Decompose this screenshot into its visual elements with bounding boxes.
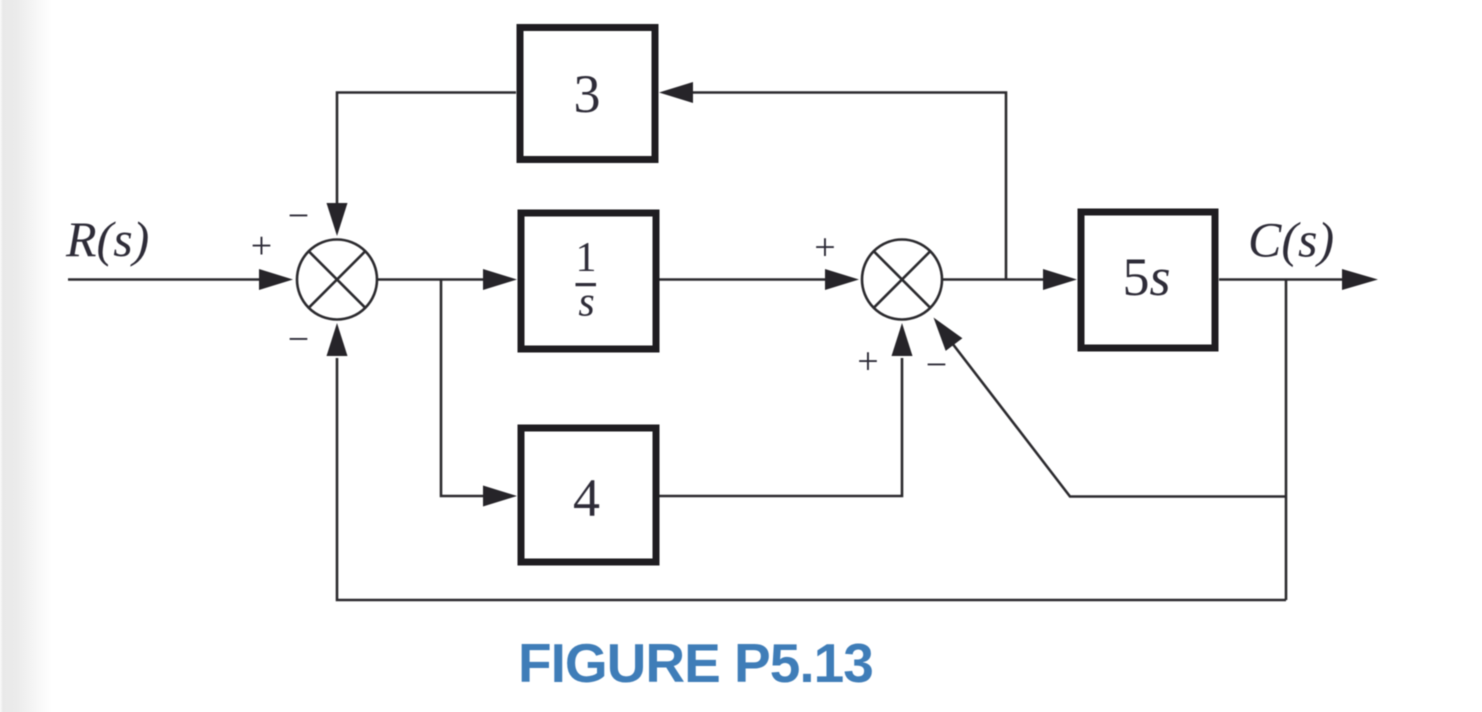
- svg-text:−: −: [288, 319, 309, 361]
- arrowhead into 5s: [1043, 269, 1077, 290]
- svg-text:3: 3: [574, 64, 601, 124]
- arrowhead into 4: [483, 486, 517, 507]
- arrowhead into S2 bottom (pointing up): [892, 323, 913, 356]
- arrowhead into 1/s: [483, 269, 517, 290]
- block 1/s: [521, 213, 656, 349]
- wire takeoff node down to block 4 input: [441, 280, 488, 497]
- wire block 4 output right and up into S2 bottom: [659, 358, 902, 496]
- wire 1/s output to summer S2: [659, 278, 828, 281]
- wire S1 output to block 1/s: [377, 278, 488, 281]
- svg-text:C(s): C(s): [1248, 212, 1334, 268]
- wire bottom feedback to S1 bottom: [337, 358, 1286, 600]
- wire diagonal feedback into S2: [952, 343, 1286, 497]
- svg-text:+: +: [251, 225, 272, 267]
- arrowhead into S2 left: [825, 269, 859, 290]
- svg-text:+: +: [857, 341, 878, 383]
- wire input R(s) to summer S1: [68, 278, 262, 281]
- svg-text:5s: 5s: [1122, 247, 1170, 307]
- block 3: [520, 28, 655, 160]
- svg-text:FIGURE P5.13: FIGURE P5.13: [518, 632, 873, 694]
- arrowhead into S1 left: [259, 269, 293, 290]
- svg-text:+: +: [814, 227, 835, 269]
- arrowhead into block 3 (pointing left): [659, 82, 693, 103]
- svg-text:4: 4: [573, 468, 600, 528]
- summing junction S1: [297, 240, 377, 320]
- wire C(s) takeoff down: [1285, 280, 1288, 601]
- block 5s: [1081, 212, 1215, 348]
- svg-text:−: −: [288, 195, 309, 237]
- arrowhead diagonal into S2 (pointing up-left): [934, 318, 963, 351]
- summing junction S2: [862, 240, 942, 320]
- page left edge shading: [0, 0, 52, 712]
- svg-text:−: −: [926, 344, 947, 386]
- arrowhead output C(s) (pointing right): [1342, 269, 1378, 290]
- arrowhead into S1 bottom (pointing up): [327, 323, 348, 356]
- svg-text:1: 1: [576, 235, 597, 281]
- wire S2 output to block 5s: [942, 278, 1048, 281]
- wire takeoff after S2 up and left into block 3: [688, 93, 1006, 280]
- svg-text:R(s): R(s): [65, 211, 149, 267]
- wire 5s output toward C(s) arrow: [1219, 278, 1348, 281]
- svg-text:s: s: [578, 280, 594, 326]
- wire block 3 output left and down into S1 top: [337, 93, 516, 207]
- block 4: [521, 428, 656, 562]
- arrowhead into S1 top (pointing down): [327, 203, 348, 236]
